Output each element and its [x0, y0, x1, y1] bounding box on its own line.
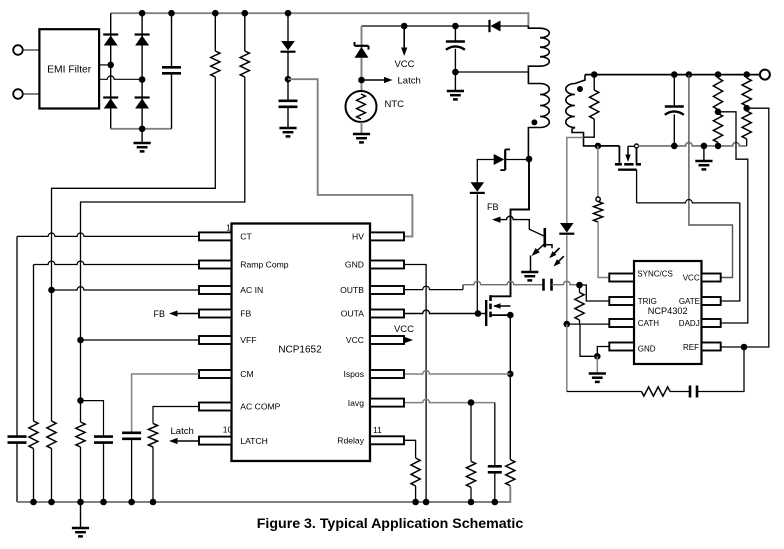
pin label AC COMP: [240, 402, 280, 412]
label VCC (pin): [394, 324, 414, 335]
capacitor CM: [122, 433, 141, 502]
pin box OUTA: [370, 310, 404, 318]
wire Ispos: [405, 371, 510, 374]
MOSFET Q1 gate bar: [485, 300, 487, 326]
pin label HV: [352, 232, 364, 242]
svg-text:EMI Filter: EMI Filter: [47, 65, 92, 76]
wire RC mid: [670, 391, 690, 393]
output terminal: [760, 70, 770, 80]
pin box DADJ 4302: [702, 319, 721, 327]
svg-text:REF: REF: [683, 343, 699, 352]
svg-text:CT: CT: [240, 232, 252, 242]
sync resistor top circle: [596, 197, 600, 201]
wire zener-NTC vertical: [361, 26, 363, 92]
op IC U2 NCP4302: [634, 261, 702, 364]
opto light arrow 1: [549, 248, 559, 258]
wire OUTB gray segment: [463, 281, 544, 284]
opto capacitor: [544, 279, 552, 291]
svg-text:DADJ: DADJ: [679, 319, 700, 328]
capacitor CT: [8, 236, 27, 502]
node VCC arrow: [401, 23, 408, 30]
damping resistor: [584, 75, 599, 138]
pin box Iavg: [370, 399, 404, 407]
wire sync source: [598, 145, 620, 147]
pin box Ispos: [370, 370, 404, 378]
caption: [257, 516, 524, 532]
pin label GND 4302: [638, 344, 656, 353]
wire AC COMP: [153, 407, 199, 424]
label FB (left): [154, 309, 166, 319]
svg-text:CM: CM: [240, 369, 253, 379]
svg-text:VCC: VCC: [346, 335, 364, 345]
sync MOSFET: [615, 146, 641, 170]
divider R1 upper: [713, 75, 722, 112]
pin box FB: [199, 310, 232, 318]
resistor lower left 1: [47, 421, 56, 502]
FB zener: [477, 149, 529, 182]
wire opto cap to node: [552, 281, 580, 284]
HV trace: [288, 79, 412, 236]
pin label DADJ: [679, 319, 700, 328]
bridge diode D1: [103, 35, 118, 46]
AC rail top: [111, 13, 529, 26]
pin label VCC: [346, 335, 364, 345]
zener diode: [355, 42, 369, 80]
pin box Ramp Comp: [199, 261, 232, 269]
bottom ground rail: [17, 486, 510, 502]
VCC down arrow: [401, 26, 407, 56]
secondary phase dot: [577, 86, 583, 92]
node OUTA clamp: [475, 310, 482, 317]
svg-text:NTC: NTC: [385, 99, 405, 110]
resistor AC feed 2: [81, 13, 250, 422]
pin box VCC 4302: [702, 274, 721, 282]
node bottom-leg2: [139, 126, 146, 133]
MOSFET Q1 source: [491, 314, 511, 316]
bridge diode D2: [135, 35, 150, 46]
label VCC: [394, 59, 414, 70]
pin box VFF: [199, 336, 232, 344]
pin box CM: [199, 370, 232, 378]
wire Rdelay: [405, 440, 416, 458]
node output rail R1: [715, 71, 722, 78]
node bottom rail x415.6: [412, 499, 419, 506]
wire OUTB: [405, 285, 463, 290]
wire CT: [17, 233, 199, 236]
node Ispos tap: [507, 371, 514, 378]
svg-text:GND: GND: [345, 260, 364, 270]
bulk capacitor: [162, 13, 181, 129]
node rail-HV diode: [285, 10, 292, 17]
VCC arrow out: [405, 337, 414, 343]
EMI filter block: [39, 29, 99, 108]
opto transistor emitter: [531, 244, 545, 272]
pin label Ispos: [343, 369, 364, 379]
divider R1 lower: [713, 112, 722, 146]
node bottom rail x471: [468, 499, 475, 506]
svg-text:LATCH: LATCH: [240, 436, 268, 446]
svg-text:SYNC/CS: SYNC/CS: [637, 269, 673, 278]
node bottom rail x426.1: [423, 499, 430, 506]
pin label OUTB: [340, 285, 364, 295]
wire SYNC: [597, 146, 599, 197]
pin box VCC: [370, 336, 404, 344]
pin label FB: [240, 309, 251, 319]
Latch arrow: [362, 77, 393, 83]
node TRIG: [576, 282, 583, 289]
clamp return wire: [455, 71, 529, 73]
pin label CT: [240, 232, 252, 242]
resistor Rdelay: [411, 458, 420, 502]
opto LED feed: [567, 138, 584, 224]
svg-text:FB: FB: [487, 202, 499, 212]
wire bridge leg 1: [110, 13, 112, 129]
resistor TRIG-CATH: [575, 285, 584, 324]
clamp diode: [490, 20, 501, 32]
pin number 1: [226, 223, 231, 233]
wire REF RC: [567, 324, 642, 391]
wire Ramp Comp: [34, 261, 200, 264]
wire TRIG: [580, 285, 610, 301]
wire Q1 source down: [509, 315, 511, 460]
transformer primary lower winding: [528, 72, 549, 159]
wire GND pin: [405, 265, 426, 503]
wire CATH: [567, 323, 610, 325]
op IC U1 NCP1652: [232, 224, 371, 462]
transformer primary upper winding: [528, 26, 549, 72]
pin label Rdelay: [337, 436, 364, 446]
svg-text:VCC: VCC: [394, 324, 414, 335]
sense resistor: [506, 460, 515, 486]
wire VFF: [81, 339, 200, 341]
pin label SYNC/CS: [637, 269, 673, 278]
mid rail: [638, 142, 746, 145]
pin box CT: [199, 232, 232, 240]
node rail-R1: [212, 10, 219, 17]
wire EMI output lower (hop over leg1): [99, 76, 142, 79]
svg-text:AC COMP: AC COMP: [240, 402, 280, 412]
pin label VCC 4302: [683, 274, 700, 283]
svg-text:FB: FB: [154, 309, 166, 319]
pin number 10: [223, 425, 233, 435]
node REF: [741, 344, 748, 351]
svg-text:Latch: Latch: [398, 76, 421, 87]
pin box HV: [370, 232, 404, 240]
svg-text:Latch: Latch: [171, 426, 194, 437]
resistor Ramp Comp: [29, 265, 38, 503]
bridge diode D4: [135, 98, 150, 109]
MOSFET Q1 drain: [491, 159, 530, 296]
svg-text:GND: GND: [638, 344, 656, 353]
pin box GATE 4302: [702, 297, 721, 305]
pin label Iavg: [348, 398, 364, 408]
node mid rail R1: [715, 143, 722, 150]
node output rail R2: [743, 71, 750, 78]
MOSFET Q1 channel: [489, 295, 492, 317]
bridge diode D3: [103, 98, 118, 109]
opto transistor bar: [543, 228, 546, 247]
opto transistor base tick: [545, 245, 552, 248]
svg-text:1: 1: [226, 223, 231, 233]
wire VCC feed: [689, 75, 733, 278]
pin label Ramp Comp: [240, 260, 288, 270]
pin box AC IN: [199, 286, 232, 294]
resistor AC COMP: [148, 424, 157, 503]
opto light arrow 2: [554, 256, 564, 266]
node clamp cap bottom: [452, 69, 459, 76]
capacitor VFF: [94, 437, 113, 502]
wire CM: [132, 374, 199, 433]
svg-text:VCC: VCC: [394, 59, 414, 70]
svg-text:VFF: VFF: [240, 335, 256, 345]
wire DADJ: [718, 112, 748, 323]
wire VFF cap jog: [81, 401, 104, 437]
pin label OUTA: [341, 309, 365, 319]
svg-text:Ispos: Ispos: [343, 369, 364, 379]
pin box SYNC/CS 4302: [609, 274, 634, 282]
node bridge left mid: [107, 62, 114, 69]
svg-text:Figure 3. Typical Application: Figure 3. Typical Application Schematic: [257, 516, 524, 532]
opto LED: [559, 223, 574, 324]
FB arrow out: [169, 310, 199, 316]
node VFF cap jog: [77, 397, 84, 404]
node AC IN: [48, 287, 55, 294]
wire GND 4302: [597, 347, 609, 357]
input terminal J1: [13, 45, 39, 55]
node bottom rail x33.5: [30, 499, 37, 506]
node bottom rail x80.5: [77, 499, 84, 506]
sync MOSFET drain circle: [635, 144, 639, 148]
FB arrow to opto base: [492, 216, 545, 236]
ground NTC: [353, 122, 370, 142]
node primary bottom: [526, 156, 533, 163]
divider R2 lower: [742, 108, 751, 146]
pin box OUTB: [370, 286, 404, 294]
node rail-R2: [242, 10, 249, 17]
svg-text:Iavg: Iavg: [348, 398, 364, 408]
svg-text:OUTA: OUTA: [341, 309, 365, 319]
node bottom rail x494.8: [492, 499, 499, 506]
FB diode: [470, 182, 485, 313]
clamp capacitor: [446, 26, 465, 72]
ground opto emitter: [521, 272, 538, 280]
capacitor REF RC: [690, 386, 697, 398]
pin box REF 4302: [702, 343, 721, 351]
node divider R2: [743, 105, 750, 112]
pin box AC COMP: [199, 403, 232, 411]
node VFF: [77, 337, 84, 344]
wire REF sense: [721, 108, 769, 347]
resistor REF RC: [642, 387, 671, 396]
node rail-leg2: [139, 10, 146, 17]
pin box TRIG 4302: [609, 297, 634, 305]
label FB (right): [487, 202, 499, 212]
ground clamp: [447, 72, 464, 99]
svg-text:CATH: CATH: [638, 319, 659, 328]
node bottom rail x153: [150, 499, 157, 506]
node Q1 source: [507, 312, 514, 319]
wire OUTA: [405, 310, 486, 313]
label Latch: [398, 76, 421, 87]
wire RC to REF: [697, 347, 744, 392]
pin label VFF: [240, 335, 256, 345]
resistor AC feed 1: [52, 13, 220, 421]
wire GATE: [637, 170, 740, 301]
label Latch (left): [171, 426, 194, 437]
sync resistor: [594, 202, 610, 278]
label NTC: [385, 99, 405, 110]
node bottom rail x103.5: [100, 499, 107, 506]
pin label GATE 4302: [679, 297, 700, 306]
output rail: [585, 74, 760, 76]
ground NCP4302: [589, 356, 606, 382]
pin label CATH: [638, 319, 659, 328]
node bottom rail x131.6: [128, 499, 135, 506]
ground HV cap: [279, 128, 296, 136]
pin label CM: [240, 369, 253, 379]
resistor lower left 2: [76, 422, 85, 502]
node mid rail gnd: [701, 143, 708, 150]
MOSFET Q1 body arrow: [493, 303, 511, 308]
pin box Rdelay: [370, 436, 404, 444]
node HV tap: [285, 76, 292, 83]
node Iavg resistor: [468, 399, 475, 406]
capacitor Iavg: [488, 403, 502, 502]
transformer secondary winding: [566, 75, 598, 146]
NTC thermistor: [346, 91, 377, 122]
ground mid rail: [695, 146, 712, 170]
node sync source: [595, 143, 602, 150]
svg-text:GATE: GATE: [679, 297, 700, 306]
primary phase dot: [531, 119, 537, 125]
node rail-bulk cap: [168, 10, 175, 17]
bridge bottom rail: [111, 128, 172, 130]
node bottom rail x51.5: [48, 499, 55, 506]
svg-text:NCP4302: NCP4302: [648, 306, 688, 316]
resistor Iavg: [466, 403, 475, 502]
node GND 4302: [594, 353, 601, 360]
svg-text:HV: HV: [352, 232, 364, 242]
input terminal J2: [13, 89, 39, 99]
pin label LATCH: [240, 436, 268, 446]
pin label REF: [683, 343, 699, 352]
node divider R1: [715, 109, 722, 116]
output capacitor: [665, 75, 684, 146]
wire bridge leg 2: [141, 13, 143, 129]
node bridge right mid: [139, 76, 146, 83]
divider R2 upper: [742, 75, 751, 109]
wire AC IN: [52, 287, 200, 290]
HV capacitor: [279, 79, 298, 127]
pin box CATH 4302: [609, 319, 634, 327]
svg-text:TRIG: TRIG: [638, 297, 657, 306]
node clamp cap: [452, 23, 459, 30]
ground bottom rail: [72, 502, 89, 536]
pin label AC IN: [240, 285, 263, 295]
svg-text:11: 11: [373, 425, 382, 435]
pin box GND: [370, 261, 404, 269]
svg-text:10: 10: [223, 425, 233, 435]
node CATH: [564, 321, 571, 328]
node secondary top: [591, 71, 598, 78]
Latch arrow out: [169, 438, 199, 444]
pin box LATCH: [199, 437, 232, 445]
pin number 11: [373, 425, 382, 435]
VCC aux line: [362, 25, 529, 27]
wire CATH to GND link: [580, 324, 597, 356]
svg-text:FB: FB: [240, 309, 251, 319]
svg-text:OUTB: OUTB: [340, 285, 364, 295]
node latch tap: [358, 77, 365, 84]
startup diode: [281, 13, 296, 79]
pin label TRIG: [638, 297, 657, 306]
svg-text:VCC: VCC: [683, 274, 700, 283]
wire Iavg: [405, 399, 495, 402]
ground bridge: [134, 129, 151, 152]
pin box GND 4302: [609, 343, 634, 351]
pin label GND: [345, 260, 364, 270]
node output rail cap: [671, 71, 678, 78]
svg-text:AC IN: AC IN: [240, 285, 263, 295]
node mid rail cap: [671, 143, 678, 150]
wire EMI output upper: [99, 64, 110, 66]
node output rail vcc-feed: [686, 71, 693, 78]
svg-text:Rdelay: Rdelay: [337, 436, 364, 446]
svg-text:Ramp Comp: Ramp Comp: [240, 260, 288, 270]
svg-text:NCP1652: NCP1652: [278, 345, 322, 356]
